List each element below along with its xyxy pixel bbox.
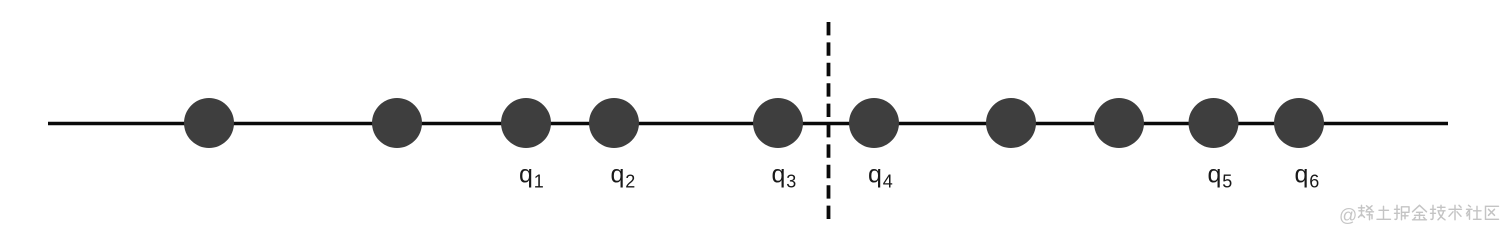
svg-text:@: @ [1339, 206, 1357, 226]
char 术 [1449, 205, 1462, 220]
dashed divider [827, 22, 831, 219]
char 稀 [1359, 205, 1374, 220]
point 8 [1094, 98, 1144, 148]
char 技 [1431, 205, 1446, 220]
svg-text:q1: q1 [519, 161, 544, 192]
svg-text:q4: q4 [868, 161, 893, 192]
char 金 [1413, 205, 1427, 220]
svg-text:q3: q3 [772, 161, 797, 192]
label q1 [519, 161, 544, 192]
watermark @稀土掘金技术社区 [1339, 205, 1499, 225]
label q6 [1295, 161, 1320, 192]
char 社 [1467, 205, 1482, 219]
svg-text:q5: q5 [1208, 161, 1233, 192]
svg-text:q6: q6 [1295, 161, 1320, 192]
point 7 [986, 98, 1036, 148]
point q4 [849, 98, 899, 148]
char 区 [1486, 206, 1499, 219]
char 土 [1377, 206, 1391, 219]
label q4 [868, 161, 893, 192]
char 掘 [1395, 205, 1410, 220]
point q5 [1189, 98, 1239, 148]
point q3 [753, 98, 803, 148]
label q3 [772, 161, 797, 192]
point 1 [184, 98, 234, 148]
label q5 [1208, 161, 1233, 192]
point q6 [1274, 98, 1324, 148]
point 2 [372, 98, 422, 148]
point q2 [589, 98, 639, 148]
svg-text:q2: q2 [611, 161, 636, 192]
point q1 [501, 98, 551, 148]
number line [48, 122, 1448, 126]
label q2 [611, 161, 636, 192]
